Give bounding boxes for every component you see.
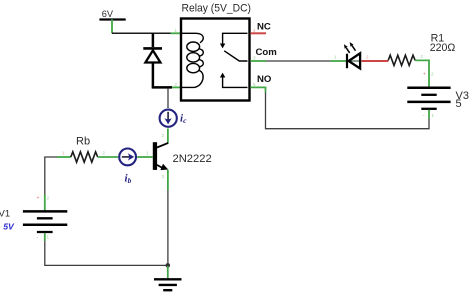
tiny minus V3 bottom bbox=[423, 113, 435, 119]
svg-text:6V: 6V bbox=[102, 9, 114, 19]
svg-text:V1: V1 bbox=[0, 209, 10, 220]
relay K1 box bbox=[181, 19, 250, 101]
svg-text:Rb: Rb bbox=[76, 136, 90, 148]
wire emitter to ground junction (gray) bbox=[167, 190, 169, 265]
wire LED anode stub (green) bbox=[331, 60, 347, 62]
tiny pin numbers LED bbox=[334, 55, 369, 60]
tiny pin numbers Rb bbox=[62, 151, 106, 156]
power rail 6V bbox=[99, 9, 125, 20]
svg-text:5: 5 bbox=[456, 98, 462, 110]
wire junction to ground (green) bbox=[167, 266, 169, 278]
wire ic probe to collector (green) bbox=[167, 129, 169, 144]
svg-text:NC: NC bbox=[257, 22, 271, 33]
wire under LED body bbox=[348, 60, 360, 62]
svg-text:5V: 5V bbox=[3, 222, 15, 232]
wire relay bottom to ic probe (gray) bbox=[167, 89, 169, 108]
wire NO vertical down (gray) bbox=[265, 93, 267, 130]
label R1 220ohm bbox=[430, 33, 456, 54]
wire R1 to battery V3 (green) bbox=[415, 60, 429, 87]
svg-text:+: + bbox=[37, 196, 40, 202]
wire V3 to NO bottom run (gray) bbox=[266, 119, 430, 129]
svg-text:+: + bbox=[423, 72, 426, 78]
wire ib probe to base (green) bbox=[137, 156, 153, 158]
svg-text:Relay (5V_DC): Relay (5V_DC) bbox=[182, 3, 252, 15]
ground bbox=[154, 279, 182, 290]
relay armature to Com bbox=[224, 51, 247, 61]
relay coil bbox=[182, 33, 203, 87]
junction dot bbox=[166, 263, 171, 268]
wire emitter down (green) bbox=[167, 170, 169, 190]
wire Rb to ib probe (green) bbox=[98, 156, 118, 158]
wire diode anode to relay coil bottom pin bbox=[152, 86, 181, 89]
pin Com stub bbox=[250, 60, 266, 62]
wire battery V1 top to Rb (gray+green) bbox=[45, 157, 71, 211]
LED D2 bbox=[347, 53, 360, 68]
wire 6V rail to relay coil pin bbox=[112, 32, 181, 34]
label V3 5 bbox=[456, 90, 469, 110]
LED light arrow 1 bbox=[344, 44, 350, 53]
pin NC stub (red) bbox=[250, 32, 266, 34]
wire V1 bottom to ground junction (gray) bbox=[45, 241, 168, 265]
wire V1 bottom stub (green) bbox=[44, 233, 46, 241]
tiny plus V3 top bbox=[423, 72, 434, 78]
current probe ic bbox=[160, 110, 177, 127]
wire Com to LED (gray) bbox=[266, 60, 331, 62]
diode D1 (flyback) bbox=[143, 33, 162, 87]
current probe ib bbox=[119, 149, 136, 166]
svg-text:NO: NO bbox=[257, 74, 272, 85]
pin NO stub bbox=[250, 87, 265, 92]
transistor Q1 2N2222 bbox=[153, 142, 168, 170]
battery V1 bbox=[23, 211, 67, 232]
wire 6V stub bbox=[111, 19, 113, 33]
svg-text:Com: Com bbox=[256, 47, 277, 58]
battery V3 bbox=[407, 88, 450, 109]
wire LED to R1 (red) bbox=[361, 60, 388, 62]
wire V3 negative down (green stub) bbox=[428, 110, 430, 119]
relay NC contact (internal) bbox=[220, 33, 248, 48]
relay NO contact (internal) bbox=[220, 73, 248, 88]
svg-text:2N2222: 2N2222 bbox=[173, 153, 212, 165]
resistor R1 bbox=[388, 55, 415, 65]
resistor Rb bbox=[71, 152, 98, 162]
tiny minus V1 bottom bbox=[37, 235, 50, 241]
svg-text:220Ω: 220Ω bbox=[430, 42, 456, 54]
LED light arrow 2 bbox=[350, 42, 356, 51]
tiny plus V1 top bbox=[37, 196, 50, 202]
